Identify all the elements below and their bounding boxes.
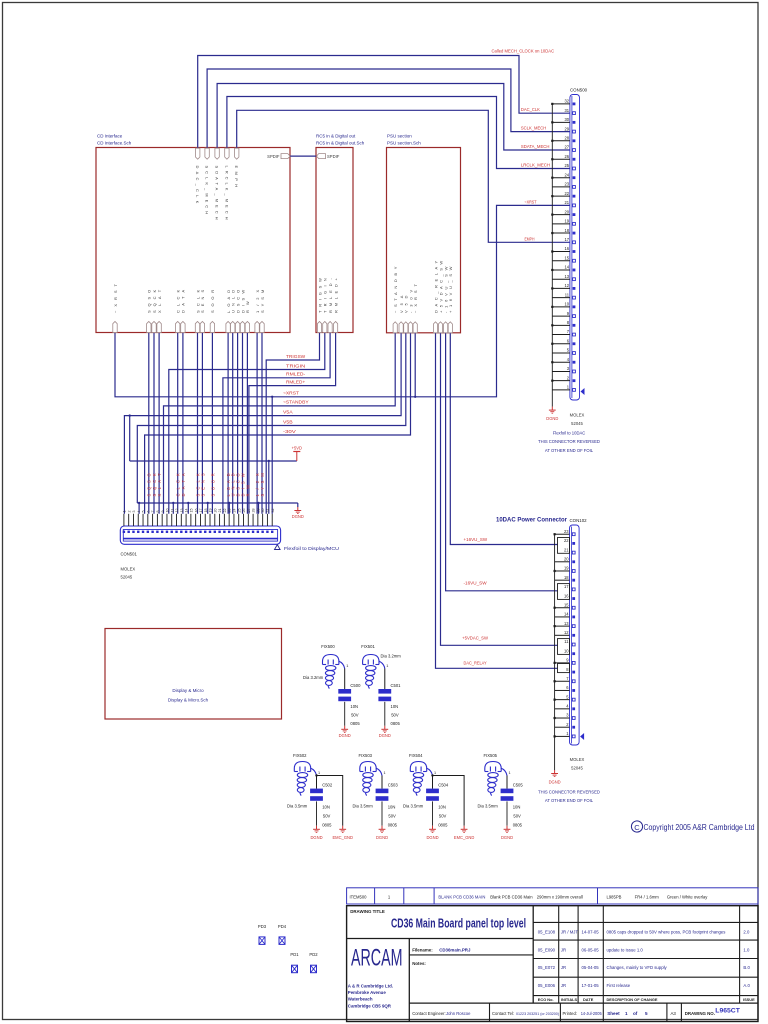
wire screw FIX503 to cap — [381, 776, 383, 789]
wire screw FIX502 to cap — [316, 776, 318, 789]
wire LRCLK_MECH — [227, 97, 570, 169]
svg-text:C505: C505 — [513, 783, 524, 788]
svg-text:0805: 0805 — [350, 721, 360, 726]
svg-text:28: 28 — [564, 135, 569, 140]
svg-text:DGND: DGND — [379, 733, 391, 738]
CD Interface top sheet entries — [196, 148, 239, 159]
svg-text:50V: 50V — [439, 814, 447, 819]
CON500 pin stubs and ground bus — [551, 103, 570, 407]
svg-text:52045: 52045 — [571, 766, 583, 771]
svg-text:31: 31 — [266, 509, 270, 513]
CON500 annotations — [538, 413, 600, 453]
svg-text:10: 10 — [166, 509, 170, 513]
svg-text:V5A: V5A — [283, 409, 293, 414]
screw FIX501 — [363, 655, 385, 689]
svg-text:~XRST: ~XRST — [283, 391, 300, 396]
svg-text:2.0: 2.0 — [743, 930, 750, 935]
svg-text:DESCRIPTION OF CHANGE: DESCRIPTION OF CHANGE — [607, 997, 658, 1002]
svg-text:01223 203251 (or 203200): 01223 203251 (or 203200) — [516, 1011, 560, 1016]
svg-text:15: 15 — [564, 602, 569, 607]
svg-text:Changes, mainly to VFD supply: Changes, mainly to VFD supply — [607, 965, 668, 970]
svg-text:8: 8 — [156, 511, 160, 513]
svg-text:DATE: DATE — [583, 997, 594, 1002]
svg-text:Dia 3.2mm: Dia 3.2mm — [303, 675, 324, 680]
svg-text:21: 21 — [564, 547, 569, 552]
svg-text:DAC_RELAY: DAC_RELAY — [464, 661, 487, 666]
wires CD interface signals to CON501 — [149, 333, 262, 514]
svg-text:1: 1 — [434, 771, 436, 775]
svg-text:+5VDAC_SW: +5VDAC_SW — [462, 636, 488, 641]
svg-text:50V: 50V — [391, 713, 399, 718]
capacitor C503 — [376, 789, 389, 794]
svg-text:THIS CONNECTOR REVERSED: THIS CONNECTOR REVERSED — [538, 439, 600, 444]
wire TRIGIN — [169, 333, 325, 514]
svg-text:17: 17 — [564, 584, 569, 589]
wire +5VDAC_SW — [441, 333, 558, 645]
wire C501 to ground — [384, 702, 386, 726]
capacitor C501 — [378, 689, 391, 694]
wire -30V — [145, 333, 411, 514]
svg-text:FR4 / 1.6mm: FR4 / 1.6mm — [635, 894, 660, 899]
svg-text:LRCLK_MECH: LRCLK_MECH — [224, 166, 229, 220]
svg-text:AT OTHER END OF FOIL: AT OTHER END OF FOIL — [545, 798, 594, 803]
CON102 contacts — [572, 533, 575, 738]
svg-text:CON500: CON500 — [570, 88, 588, 93]
svg-text:14: 14 — [564, 612, 569, 617]
screw FIX505 — [485, 762, 507, 796]
svg-text:10N: 10N — [388, 805, 396, 810]
wire RMLED+ — [249, 333, 336, 514]
svg-text:0805 caps dropped to 50V where: 0805 caps dropped to 50V where poss, PCB… — [607, 930, 726, 935]
svg-text:John Roscoe: John Roscoe — [446, 1011, 471, 1016]
svg-text:05_E006: 05_E006 — [538, 983, 556, 988]
svg-text:C: C — [634, 823, 640, 832]
wire C504 to ground — [432, 801, 434, 825]
revision history table — [538, 930, 755, 1003]
svg-text:PD4: PD4 — [278, 924, 287, 929]
CON102 annotations — [538, 757, 600, 803]
svg-text:05_E072: 05_E072 — [538, 965, 556, 970]
svg-text:22: 22 — [223, 509, 227, 513]
svg-text:RMLED+: RMLED+ — [286, 379, 306, 384]
svg-text:32: 32 — [271, 509, 275, 513]
svg-text:14: 14 — [564, 265, 569, 270]
wire screw FIX501 to cap — [384, 669, 386, 690]
svg-text:JR: JR — [561, 965, 566, 970]
svg-text:Dia 3.5mm: Dia 3.5mm — [287, 804, 308, 809]
svg-text:6: 6 — [146, 511, 150, 513]
svg-text:23: 23 — [228, 509, 232, 513]
svg-text:EMC_GND: EMC_GND — [332, 835, 353, 840]
svg-text:First release: First release — [607, 983, 631, 988]
svg-text:10: 10 — [564, 648, 569, 653]
svg-text:1: 1 — [123, 511, 127, 513]
svg-text:0805: 0805 — [322, 823, 332, 828]
svg-text:Contact Tel:: Contact Tel: — [492, 1011, 514, 1016]
svg-text:Sheet: Sheet — [607, 1011, 620, 1016]
svg-text:25: 25 — [237, 509, 241, 513]
wire EMPH — [237, 110, 570, 242]
svg-text:9: 9 — [161, 511, 165, 513]
svg-text:Called MECH_CLOCK on 10DAC: Called MECH_CLOCK on 10DAC — [492, 48, 555, 53]
svg-text:+16VU_SW: +16VU_SW — [464, 537, 488, 542]
svg-text:SCLK_MECH: SCLK_MECH — [205, 166, 210, 215]
svg-text:10N: 10N — [513, 805, 521, 810]
value C502 — [322, 805, 332, 828]
svg-text:PD1: PD1 — [290, 952, 299, 957]
svg-text:PSU section: PSU section — [387, 134, 412, 139]
svg-text:15: 15 — [564, 255, 569, 260]
capacitor C505 — [501, 789, 514, 794]
svg-text:0805: 0805 — [513, 823, 523, 828]
svg-text:DRAWING TITLE: DRAWING TITLE — [350, 909, 385, 914]
svg-text:7: 7 — [151, 511, 155, 513]
svg-text:SPDIF: SPDIF — [267, 154, 280, 159]
screw FIX500 — [323, 655, 345, 689]
wire SPDIF — [290, 155, 316, 157]
ground EMC_GND (FIX504) — [463, 826, 465, 830]
svg-text:22: 22 — [564, 191, 569, 196]
copyright note — [631, 821, 754, 832]
CD top pin labels — [195, 166, 239, 220]
wire SDATA_MECH — [217, 84, 570, 151]
svg-text:1: 1 — [318, 771, 320, 775]
value C500 — [350, 704, 360, 726]
CON500 contacts — [573, 102, 576, 391]
svg-text:11: 11 — [564, 639, 569, 644]
svg-text:22: 22 — [564, 538, 569, 543]
CON501 pin numbers — [123, 509, 275, 513]
svg-text:RC5 in & Digital out.Sch: RC5 in & Digital out.Sch — [316, 141, 365, 146]
svg-text:06-05-05: 06-05-05 — [582, 947, 600, 952]
svg-text:290mm x 190mm overall: 290mm x 190mm overall — [537, 894, 583, 899]
sheet symbol RC5 in &amp; Digital out — [316, 134, 365, 333]
svg-text:14-Jul-2005: 14-Jul-2005 — [581, 1011, 603, 1016]
filename row — [412, 947, 471, 966]
PSU bottom sheet entries — [393, 322, 452, 333]
ground DGND (C502) — [316, 826, 318, 830]
screw FIX504 — [410, 762, 432, 796]
svg-text:ECO No.: ECO No. — [538, 997, 554, 1002]
svg-text:30: 30 — [261, 509, 265, 513]
CON500 net labels — [521, 107, 550, 241]
svg-text:17-01-05: 17-01-05 — [582, 983, 600, 988]
sheet symbol CD Interface — [96, 134, 290, 333]
CON102 pin numbers — [564, 529, 569, 736]
svg-text:L985PB: L985PB — [607, 894, 622, 899]
svg-text:DGND: DGND — [310, 835, 322, 840]
svg-text:Dia 3.5mm: Dia 3.5mm — [478, 804, 499, 809]
svg-text:CD Interface: CD Interface — [97, 134, 123, 139]
svg-text:LRCLK_MECH: LRCLK_MECH — [521, 163, 550, 168]
svg-text:2: 2 — [127, 511, 131, 513]
ground DGND (CON102) — [554, 770, 556, 774]
svg-text:31: 31 — [564, 108, 569, 113]
CON501 net labels — [147, 473, 265, 497]
svg-text:18: 18 — [204, 509, 208, 513]
RC5 bottom pin labels — [317, 278, 338, 313]
CD bottom pin labels — [113, 283, 265, 313]
svg-text:C504: C504 — [438, 783, 449, 788]
wire DGND rail — [137, 502, 297, 514]
svg-text:Pembroke Avenue: Pembroke Avenue — [348, 990, 387, 995]
svg-text:0805: 0805 — [438, 823, 448, 828]
svg-text:V5B: V5B — [283, 419, 293, 424]
svg-text:SCLK_MECH: SCLK_MECH — [521, 126, 546, 131]
svg-text:15: 15 — [189, 509, 193, 513]
wire FIX504 to EMC_GND — [433, 776, 465, 826]
svg-text:1: 1 — [509, 771, 511, 775]
svg-text:DGND: DGND — [339, 733, 351, 738]
connector CON501 — [120, 526, 280, 544]
svg-text:1: 1 — [625, 1011, 628, 1016]
wire ~STANDBY — [164, 333, 396, 514]
svg-text:14-07-05: 14-07-05 — [582, 930, 600, 935]
svg-text:CON102: CON102 — [570, 518, 588, 523]
screw FIX503 — [360, 762, 382, 796]
svg-text:27: 27 — [564, 145, 569, 150]
ground DGND (C501) — [384, 726, 386, 730]
svg-text:Notes:: Notes: — [412, 961, 426, 966]
svg-text:Dia 3.5mm: Dia 3.5mm — [353, 804, 374, 809]
wire ~XRST branch to CON501 — [271, 397, 273, 514]
svg-text:05_E090: 05_E090 — [538, 947, 556, 952]
svg-text:52045: 52045 — [121, 575, 133, 580]
wire -16VU_SW — [446, 333, 558, 591]
capacitor C502 — [310, 789, 323, 794]
svg-text:10: 10 — [564, 302, 569, 307]
svg-text:Waterbeach: Waterbeach — [348, 997, 373, 1002]
svg-text:DAC_CLK: DAC_CLK — [521, 107, 540, 112]
svg-text:+5VD: +5VD — [292, 445, 302, 450]
svg-text:CON501: CON501 — [121, 552, 138, 557]
connector CON102 — [570, 518, 588, 745]
svg-text:ISSUE: ISSUE — [743, 997, 755, 1002]
wire TRIGSW — [266, 333, 319, 514]
svg-text:13: 13 — [180, 509, 184, 513]
svg-text:FIX501: FIX501 — [361, 644, 375, 649]
svg-text:Blank PCB CD36 Main: Blank PCB CD36 Main — [490, 894, 533, 899]
svg-text:0805: 0805 — [391, 721, 401, 726]
svg-text:5: 5 — [645, 1011, 648, 1016]
svg-text:Cambridge CB5 9QR: Cambridge CB5 9QR — [348, 1004, 392, 1009]
svg-text:L965CT: L965CT — [715, 1008, 740, 1015]
svg-text:50V: 50V — [323, 814, 331, 819]
svg-text:EMPH: EMPH — [525, 236, 535, 241]
wire RMLED- — [223, 333, 330, 514]
svg-text:24: 24 — [564, 172, 569, 177]
CD SPDIF sheet entry — [281, 154, 290, 159]
svg-text:EMC_GND: EMC_GND — [454, 835, 475, 840]
svg-text:19: 19 — [209, 509, 213, 513]
svg-text:PD3: PD3 — [258, 924, 267, 929]
svg-text:24: 24 — [233, 509, 237, 513]
power symbol +5VD — [296, 452, 298, 462]
wire ~XRST net — [115, 205, 570, 396]
svg-text:50V: 50V — [513, 814, 521, 819]
svg-text:50V: 50V — [388, 814, 396, 819]
CON501 contacts — [123, 531, 274, 533]
svg-text:21: 21 — [564, 200, 569, 205]
value C503 — [388, 805, 398, 828]
svg-text:CD36main.PRJ: CD36main.PRJ — [439, 947, 471, 952]
company address — [348, 984, 393, 1009]
svg-text:19: 19 — [564, 566, 569, 571]
title block: item row — [347, 888, 758, 904]
svg-text:Filename:: Filename: — [412, 947, 433, 952]
RC5 SPDIF sheet entry — [317, 154, 326, 159]
wire ~XRST branch from PSU — [414, 333, 416, 397]
svg-text:27: 27 — [247, 509, 251, 513]
svg-text:SDATA_MECH: SDATA_MECH — [521, 144, 550, 149]
svg-text:12: 12 — [564, 283, 569, 288]
svg-text:DGND: DGND — [501, 835, 513, 840]
svg-text:11: 11 — [170, 509, 174, 513]
svg-text:A.0: A.0 — [743, 983, 750, 988]
svg-text:Flexfoil to 10DAC: Flexfoil to 10DAC — [553, 431, 586, 436]
svg-text:29: 29 — [256, 509, 260, 513]
svg-text:Dia 3.5mm: Dia 3.5mm — [403, 804, 424, 809]
svg-text:DGND: DGND — [426, 835, 438, 840]
svg-text:Display & Micro.Sch: Display & Micro.Sch — [168, 698, 209, 703]
capacitor C500 — [338, 689, 351, 694]
svg-text:Flexfoil to Display/MCU: Flexfoil to Display/MCU — [284, 546, 340, 552]
svg-text:FIX505: FIX505 — [484, 753, 498, 758]
svg-text:CD Interface.Sch: CD Interface.Sch — [97, 141, 132, 146]
svg-text:TRIGIN: TRIGIN — [286, 363, 305, 368]
svg-text:16: 16 — [564, 593, 569, 598]
ground EMC_GND (FIX502) — [342, 826, 344, 830]
ground DGND (C504) — [432, 826, 434, 830]
wire screw FIX505 to cap — [506, 776, 508, 789]
svg-text:21: 21 — [218, 509, 222, 513]
svg-text:1: 1 — [384, 771, 386, 775]
svg-text:3: 3 — [132, 511, 136, 513]
svg-text:Display & Micro: Display & Micro — [172, 688, 204, 693]
svg-text:28: 28 — [252, 509, 256, 513]
CON102 group boxes — [558, 538, 570, 673]
svg-text:12: 12 — [175, 509, 179, 513]
svg-text:update to issue 1.0: update to issue 1.0 — [607, 947, 644, 952]
svg-text:Dia 3.2mm: Dia 3.2mm — [381, 653, 402, 658]
svg-text:FIX500: FIX500 — [321, 644, 335, 649]
svg-text:MOLEX: MOLEX — [570, 757, 585, 762]
svg-text:THIS CONNECTOR REVERSED: THIS CONNECTOR REVERSED — [538, 790, 600, 795]
svg-text:29: 29 — [564, 126, 569, 131]
svg-text:1.0: 1.0 — [743, 947, 750, 952]
ground DGND (CON501) — [297, 507, 299, 511]
value C501 — [391, 704, 401, 726]
svg-text:C501: C501 — [391, 683, 402, 688]
svg-text:C500: C500 — [350, 683, 361, 688]
PSU bottom pin labels — [393, 260, 453, 313]
svg-text:13: 13 — [564, 274, 569, 279]
svg-text:~STANDBY: ~STANDBY — [283, 400, 309, 405]
CON500 pin numbers — [564, 99, 569, 390]
svg-text:16: 16 — [194, 509, 198, 513]
svg-text:19: 19 — [564, 219, 569, 224]
svg-text:26: 26 — [242, 509, 246, 513]
sheet symbol PSU section — [387, 134, 461, 333]
sheet symbol Display &amp; Micro — [105, 629, 282, 720]
wire screw FIX504 to cap — [432, 776, 434, 789]
svg-text:20: 20 — [564, 556, 569, 561]
svg-text:FIX504: FIX504 — [409, 753, 423, 758]
svg-text:~XRST: ~XRST — [524, 199, 537, 204]
wire V5A — [124, 333, 401, 514]
wire DAC_RELAY — [436, 333, 558, 668]
svg-text:17: 17 — [199, 509, 203, 513]
svg-text:DGND: DGND — [376, 835, 388, 840]
svg-text:26: 26 — [564, 154, 569, 159]
wire V5B — [137, 333, 406, 503]
capacitor C504 — [426, 789, 439, 794]
fiducial PD1 — [290, 952, 299, 973]
svg-text:RMLED-: RMLED- — [286, 372, 306, 377]
svg-text:C502: C502 — [322, 783, 333, 788]
CON102 pin stubs and ground bus — [554, 533, 570, 770]
wire C502 to ground — [316, 801, 318, 825]
CON501 annotations — [275, 545, 281, 550]
wire SCLK_MECH — [207, 69, 570, 149]
svg-text:23: 23 — [564, 529, 569, 534]
CON501 pin stubs — [124, 514, 272, 526]
svg-text:RC5 in & Digital out: RC5 in & Digital out — [316, 134, 356, 139]
svg-text:12: 12 — [564, 630, 569, 635]
svg-text:16: 16 — [564, 246, 569, 251]
svg-text:5: 5 — [142, 511, 146, 513]
value C504 — [438, 805, 448, 828]
ground DGND (CON500) — [551, 407, 553, 411]
svg-text:DGND: DGND — [549, 780, 561, 785]
value C505 — [513, 805, 523, 828]
svg-text:Green / White overlay: Green / White overlay — [667, 894, 708, 899]
svg-text:Printed:: Printed: — [563, 1011, 577, 1016]
svg-text:DGND: DGND — [292, 514, 304, 519]
svg-text:MOLEX: MOLEX — [121, 567, 136, 572]
contact row — [412, 1008, 741, 1017]
svg-text:DGND: DGND — [546, 416, 558, 421]
svg-text:of: of — [633, 1011, 638, 1016]
svg-text:52045: 52045 — [571, 421, 583, 426]
svg-text:0805: 0805 — [388, 823, 398, 828]
wire screw FIX500 to cap — [344, 669, 346, 690]
svg-text:-16VU_SW: -16VU_SW — [464, 580, 487, 585]
svg-text:18: 18 — [564, 575, 569, 580]
wire C500 to ground — [344, 702, 346, 726]
svg-text:BLANK PCB CD36 MAIN: BLANK PCB CD36 MAIN — [438, 894, 485, 899]
svg-text:23: 23 — [564, 182, 569, 187]
svg-text:10N: 10N — [438, 805, 446, 810]
svg-text:A & R Cambridge Ltd.: A & R Cambridge Ltd. — [348, 984, 393, 989]
svg-text:20: 20 — [213, 509, 217, 513]
wire FIX502 to EMC_GND — [317, 776, 343, 826]
svg-text:ITEM500: ITEM500 — [350, 894, 368, 899]
wire DAC_CLK — [198, 56, 570, 149]
svg-text:A3: A3 — [671, 1011, 677, 1016]
svg-text:13: 13 — [564, 621, 569, 626]
svg-text:C503: C503 — [388, 783, 399, 788]
svg-text:SDATA_MECH: SDATA_MECH — [215, 166, 220, 220]
fiducial PD3 — [258, 924, 267, 945]
svg-text:ARCAM: ARCAM — [351, 945, 403, 972]
svg-text:20: 20 — [564, 209, 569, 214]
title block: frame — [347, 906, 758, 1022]
svg-text:11: 11 — [565, 292, 570, 297]
svg-text:32: 32 — [564, 99, 569, 104]
svg-text:JR: JR — [561, 947, 566, 952]
ground DGND (C503) — [381, 826, 383, 830]
